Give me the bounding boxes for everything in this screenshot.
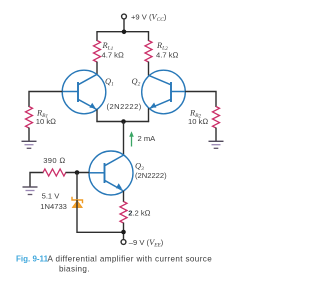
wire Q2 base to RB2 <box>185 92 216 108</box>
transistor Q2 <box>142 70 186 114</box>
svg-text:1N4733: 1N4733 <box>40 202 67 211</box>
terminal +9V VCC <box>122 14 127 19</box>
wire zener node down <box>76 173 78 200</box>
junction dot top bus <box>122 30 127 35</box>
svg-text:5.1 V: 5.1 V <box>42 192 61 201</box>
terminal -9V VEE <box>121 240 126 245</box>
wire 390 left to ground corner <box>30 173 44 188</box>
wire VCC terminal to bus <box>123 19 125 32</box>
wire RL2 top lead <box>148 31 150 41</box>
resistor RB1 <box>26 107 33 129</box>
svg-text:390 Ω: 390 Ω <box>43 156 65 165</box>
svg-text:10 kΩ: 10 kΩ <box>36 117 56 126</box>
wire RB2 to ground <box>215 128 217 142</box>
ground (390) <box>23 187 38 195</box>
junction dot emitter bus <box>121 119 126 124</box>
svg-text:2 mA: 2 mA <box>138 134 157 143</box>
resistor 390 <box>43 169 66 176</box>
svg-text:(2N2222): (2N2222) <box>107 102 142 111</box>
wire Q1 base to RB1 <box>29 92 62 108</box>
wire Q2 emitter down <box>148 108 150 122</box>
svg-text:4.7 kΩ: 4.7 kΩ <box>102 51 124 60</box>
svg-text:4.7 kΩ: 4.7 kΩ <box>156 51 178 60</box>
zener diode D1 1N4733 <box>72 197 83 208</box>
wire emitter bus <box>96 121 149 123</box>
svg-text:A differential amplifier with: A differential amplifier with current so… <box>48 255 213 264</box>
resistor RE 2.2k <box>120 202 127 224</box>
wire Q1 emitter down <box>96 110 98 123</box>
junction dot zener node <box>75 170 80 175</box>
resistor RB2 <box>213 107 220 129</box>
svg-text:Fig. 9-11: Fig. 9-11 <box>16 255 49 264</box>
svg-text:2.2 kΩ: 2.2 kΩ <box>128 208 150 217</box>
wire top bus <box>96 31 149 33</box>
wire Q3 emitter to RE <box>123 191 125 202</box>
wire zener bottom to -9V node <box>77 200 124 232</box>
transistor Q3 <box>89 151 133 195</box>
ground (RB1) <box>22 141 37 148</box>
resistor RL2 <box>145 41 152 63</box>
wire RL1 top lead <box>96 31 98 41</box>
svg-text:10 kΩ: 10 kΩ <box>188 117 208 126</box>
junction dot -9V node <box>121 230 126 235</box>
wire bus to Q3 collector <box>123 122 125 155</box>
resistor RL1 <box>94 41 101 63</box>
wire RL1 bottom lead <box>96 62 98 75</box>
current arrow 2 mA <box>129 131 134 146</box>
wire 390 to Q3 base <box>66 172 90 174</box>
ground (RB2) <box>209 141 224 148</box>
wire RE to -9V node <box>123 223 125 240</box>
transistor Q1 <box>62 70 106 114</box>
svg-text:biasing.: biasing. <box>59 264 90 273</box>
wire RL2 bottom lead <box>148 62 150 76</box>
wire RB1 to ground <box>28 128 30 142</box>
svg-text:(2N2222): (2N2222) <box>135 171 167 180</box>
